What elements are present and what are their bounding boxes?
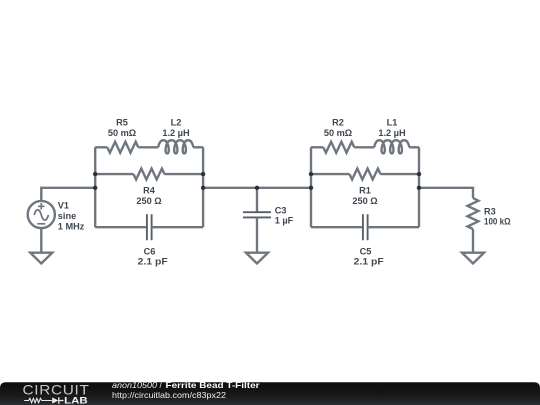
svg-text:R5: R5: [116, 117, 128, 127]
svg-text:anon10500: anon10500: [112, 381, 158, 390]
wire R1 left lead: [311, 173, 350, 175]
wire C3 bottom lead: [256, 217, 258, 252]
resistor R4: [134, 169, 165, 180]
svg-text:1 µF: 1 µF: [275, 216, 294, 226]
node dot right block right rail main: [417, 186, 421, 190]
node dot right rail R4: [201, 172, 205, 176]
wire R3 to ground: [472, 229, 474, 253]
wire main to R3: [419, 188, 473, 198]
wire top branch lead-in right block: [311, 146, 323, 148]
svg-text:1 MHz: 1 MHz: [58, 221, 85, 231]
wire right rail of left block: [202, 147, 204, 227]
node dot right block left rail R1: [309, 172, 313, 176]
node dot right block right rail R1: [417, 172, 421, 176]
voltage source V1: [28, 201, 55, 228]
wire top branch lead-in: [95, 146, 107, 148]
svg-text:L2: L2: [171, 117, 182, 127]
wire C6 right lead: [152, 226, 204, 228]
svg-text:Ferrite Bead T-Filter: Ferrite Bead T-Filter: [166, 381, 261, 390]
svg-text:50 mΩ: 50 mΩ: [324, 128, 352, 138]
capacitor C5: [363, 214, 368, 240]
svg-text:V1: V1: [58, 201, 69, 211]
inductor L2: [158, 140, 193, 153]
svg-text:http://circuitlab.com/c83px22: http://circuitlab.com/c83px22: [112, 391, 227, 400]
ground (C3): [246, 253, 268, 264]
wire right rail of right block: [418, 147, 420, 227]
wire V1 bottom to ground: [40, 228, 42, 253]
svg-text:L1: L1: [387, 117, 398, 127]
wire V1 top to node A: [41, 188, 95, 201]
inductor L1: [374, 140, 409, 153]
svg-text:R3: R3: [484, 206, 496, 216]
footer bar: [0, 382, 540, 405]
node dot left rail R4: [93, 172, 97, 176]
resistor R2: [323, 142, 354, 153]
svg-text:sine: sine: [58, 211, 76, 221]
footer logo resistor squiggle: [24, 398, 52, 402]
svg-text:50 mΩ: 50 mΩ: [108, 128, 136, 138]
wire C5 left lead: [311, 226, 363, 228]
footer logo diode: [52, 397, 58, 403]
resistor R3: [468, 198, 479, 229]
svg-text:1.2 µH: 1.2 µH: [162, 128, 190, 138]
wire left rail: [94, 147, 96, 227]
node dot right block left rail main: [309, 186, 313, 190]
ground (R3): [462, 253, 484, 264]
svg-text:2.1 pF: 2.1 pF: [138, 257, 168, 267]
svg-text:R1: R1: [359, 185, 371, 195]
svg-text:C3: C3: [275, 205, 287, 215]
svg-text:250 Ω: 250 Ω: [136, 196, 161, 206]
wire C3 top lead: [256, 188, 258, 212]
wire main left-to-middle: [203, 187, 311, 189]
wire L2 to rail: [193, 146, 203, 148]
wire C6 left lead: [95, 226, 147, 228]
wire C5 right lead: [368, 226, 419, 228]
resistor R5: [107, 142, 138, 153]
resistor R1: [350, 169, 381, 180]
wire L1 to rail: [409, 146, 419, 148]
wire left rail of right block: [310, 147, 312, 227]
svg-text:250 Ω: 250 Ω: [352, 196, 377, 206]
node dot right rail main: [201, 186, 205, 190]
svg-text:100 kΩ: 100 kΩ: [484, 217, 511, 227]
svg-text:1.2 µH: 1.2 µH: [378, 128, 406, 138]
wire R5 to L2: [138, 146, 158, 148]
capacitor C6: [147, 214, 152, 240]
wire R4 right lead: [165, 173, 204, 175]
svg-text:LAB: LAB: [64, 395, 88, 405]
node dot left rail main: [93, 186, 97, 190]
node dot C3 tap: [255, 186, 259, 190]
wire R1 right lead: [381, 173, 420, 175]
svg-text:C6: C6: [144, 246, 156, 256]
svg-text:R4: R4: [143, 185, 156, 195]
wire R4 left lead: [95, 173, 133, 175]
wire R2 to L1: [354, 146, 374, 148]
svg-text:R2: R2: [332, 117, 344, 127]
svg-text:C5: C5: [360, 246, 372, 256]
ground (V1): [30, 253, 52, 264]
svg-text:2.1 pF: 2.1 pF: [354, 257, 384, 267]
capacitor C3: [243, 212, 271, 217]
